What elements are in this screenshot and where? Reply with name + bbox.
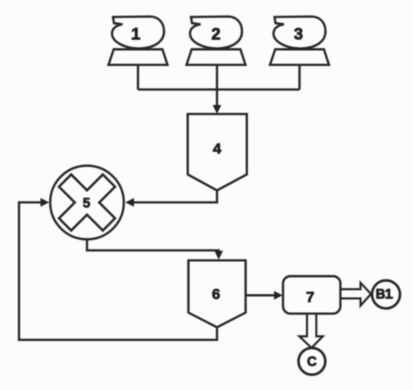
svg-text:7: 7 (306, 289, 314, 306)
svg-text:C: C (307, 354, 317, 369)
svg-text:2: 2 (211, 26, 220, 44)
svg-text:1: 1 (131, 25, 140, 43)
svg-text:3: 3 (294, 26, 303, 44)
svg-text:6: 6 (212, 286, 220, 303)
svg-text:4: 4 (213, 141, 222, 158)
svg-text:5: 5 (83, 196, 91, 211)
svg-text:B1: B1 (376, 287, 393, 302)
